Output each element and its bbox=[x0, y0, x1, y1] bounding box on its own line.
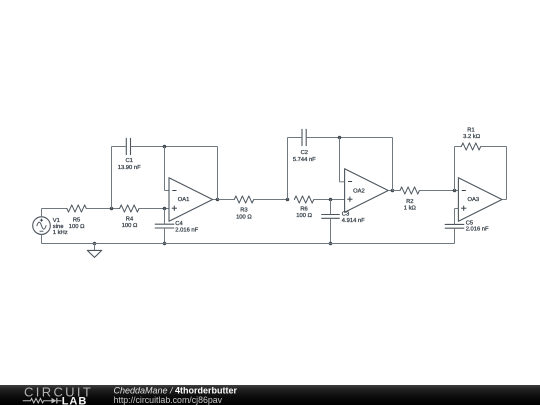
svg-text:http://circuitlab.com/cj86pav: http://circuitlab.com/cj86pav bbox=[114, 395, 223, 405]
svg-text:LAB: LAB bbox=[62, 395, 88, 405]
